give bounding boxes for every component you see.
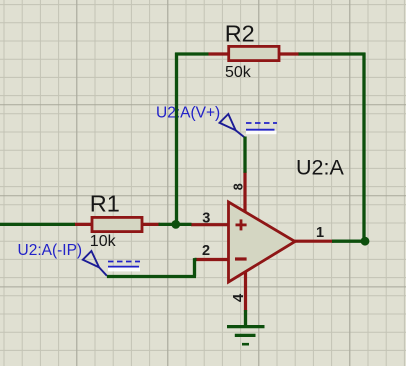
terminal -IP dashed line [108,261,140,263]
resistor R1 leads [74,223,160,226]
svg-text:R1: R1 [90,191,120,217]
op-amp minus symbol [235,257,247,260]
resistor R1 body [92,217,142,231]
wire feedback left vertical [175,53,178,225]
op-amp U2:A pin 1 output lead [294,240,334,243]
wire pin 2 to -IP terminal [107,275,196,278]
op-amp U2:A body [229,202,296,282]
svg-text:2: 2 [202,243,210,259]
svg-text:R2: R2 [225,21,255,47]
op-amp U2:A pin 2 lead [195,258,230,261]
terminal V+ solid line [246,129,275,131]
op-amp U2:A pin 4 lead [244,271,247,312]
resistor R2 leads [209,52,300,55]
ground symbol [227,327,265,345]
terminal -IP white field [108,268,140,272]
svg-text:U2:A: U2:A [296,155,344,179]
terminal V+ dashed line [246,122,277,124]
svg-text:U2:A(V+): U2:A(V+) [156,104,220,121]
wire R1 to pin 3 node [159,223,192,226]
junction node at output [361,237,370,246]
terminal V+ arrow [220,114,246,138]
op-amp plus symbol [236,219,247,230]
svg-text:10k: 10k [90,233,117,250]
op-amp U2:A pin 8 lead [243,172,246,214]
wire feedback top right [299,52,366,55]
terminal -IP solid line [108,266,139,268]
terminal V+ white field [246,131,277,135]
wire pin 4 to ground [244,310,247,328]
wire feedback top left [175,52,208,55]
svg-text:50k: 50k [225,64,252,81]
wire V+ terminal to pin 8 [243,137,246,173]
svg-text:8: 8 [231,183,245,190]
wire pin 2 vertical [193,258,196,276]
svg-text:3: 3 [202,210,210,226]
wire input to R1 [0,223,75,226]
wire pin 2 horizontal [195,258,197,261]
wire output right vertical [362,53,365,242]
junction node at pin 3 [171,220,180,229]
op-amp U2:A pin 3 lead [191,223,230,226]
resistor R2 body [229,46,279,60]
svg-text:4: 4 [230,293,247,302]
terminal -IP arrow [83,251,107,276]
svg-text:1: 1 [316,225,324,241]
wire output horizontal [332,240,365,243]
svg-text:U2:A(-IP): U2:A(-IP) [18,242,83,259]
